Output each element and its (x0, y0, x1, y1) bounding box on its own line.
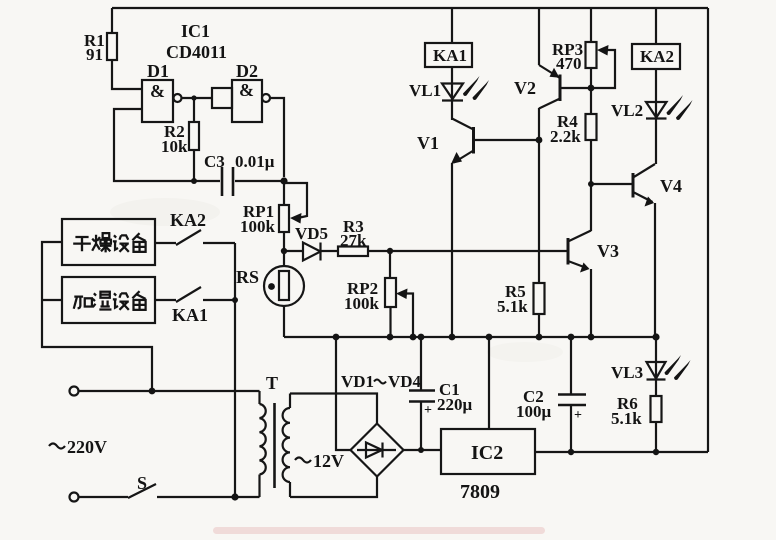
svg-text:220V: 220V (67, 437, 107, 457)
wire IC2 output to right rail (535, 451, 708, 453)
junction dot mains top (149, 388, 156, 395)
svg-text:5.1k: 5.1k (611, 409, 642, 428)
bus junction dot R5 (536, 334, 543, 341)
svg-text:S: S (137, 473, 147, 493)
relay coil KA2 (655, 8, 657, 44)
svg-text:KA2: KA2 (170, 210, 206, 230)
bus junction dot RP2 wiper (410, 334, 417, 341)
box humidifying equipment (62, 277, 155, 323)
capacitor C1 (420, 337, 422, 390)
wire D2 output to node A (270, 98, 284, 177)
text humidifying equipment (jia shi she bei) (74, 291, 146, 310)
relay coil KA1 (451, 8, 453, 43)
sensor RS (283, 254, 285, 266)
wire bus to bridge left vertex (336, 337, 351, 450)
svg-text:27k: 27k (340, 231, 367, 250)
arrowhead RP2 wiper (396, 289, 408, 300)
node junction dot V4 base (588, 181, 594, 187)
svg-text:VL1: VL1 (409, 81, 441, 100)
svg-text:2.2k: 2.2k (550, 127, 581, 146)
LED VL2 emission arrows (667, 95, 693, 120)
node junction dot V1 base (536, 137, 543, 144)
svg-text:0.01μ: 0.01μ (235, 152, 275, 171)
wire RP3 wiper loop (592, 50, 615, 88)
text drying equipment (gan zao she bei) (73, 233, 145, 252)
bus junction dot IC2 ground (486, 334, 493, 341)
svg-text:10k: 10k (161, 137, 188, 156)
arrowhead V1 emitter (451, 152, 462, 164)
svg-text:C3: C3 (204, 152, 225, 171)
svg-text:V2: V2 (514, 78, 536, 98)
wire R1 to D1 input 1 (112, 60, 142, 89)
resistor R2 (193, 98, 195, 122)
svg-text:220μ: 220μ (437, 395, 473, 414)
arrowhead V3 emitter (580, 263, 590, 273)
svg-text:D2: D2 (236, 61, 258, 81)
wire R3 to V3 base (368, 250, 568, 252)
svg-text:D1: D1 (147, 61, 169, 81)
svg-text:VD1: VD1 (341, 372, 374, 391)
bus junction dot RP2 (387, 334, 394, 341)
wire RP1 wiper loop (284, 183, 307, 218)
transistor Q1: V1 (452, 119, 474, 130)
wire equipment common (42, 242, 152, 391)
svg-text:V4: V4 (660, 176, 682, 196)
label ~220V (49, 444, 65, 449)
svg-text:&: & (150, 81, 165, 101)
arrowhead V4 emitter (645, 197, 655, 207)
bus junction dot C1 (418, 334, 425, 341)
transformer T secondary (289, 394, 291, 498)
junction dot S wire (231, 493, 238, 500)
svg-text:VL2: VL2 (611, 101, 643, 120)
transformer T primary (258, 391, 260, 497)
potentiometer RP2 (389, 251, 391, 278)
arrowhead V2 emitter (550, 68, 560, 78)
switch S blade (128, 484, 156, 498)
wire top supply rail (112, 7, 708, 9)
node junction dot RS inner electrode (268, 283, 275, 290)
svg-text:+: + (574, 408, 582, 423)
svg-text:12V: 12V (313, 451, 344, 471)
wire bridge top vertex to secondary top (290, 394, 377, 424)
svg-text:7809: 7809 (460, 481, 500, 503)
diode VD5 (284, 250, 303, 252)
resistor R1 (111, 8, 113, 33)
wire RP2 wiper to bus (404, 294, 413, 338)
switch KA2 contact (155, 230, 235, 245)
node junction dot R2 bottom (191, 178, 197, 184)
svg-text:5.1k: 5.1k (497, 297, 528, 316)
wire switch S to transformer (157, 496, 260, 498)
resistor R6 (655, 380, 657, 396)
bus junction dot V4 emitter / VL3 (652, 333, 659, 340)
junction dot KA1 wire (232, 297, 238, 303)
svg-text:VL3: VL3 (611, 363, 643, 382)
svg-text:KA1: KA1 (172, 305, 208, 325)
resistor R5 (534, 283, 545, 314)
node junction dot RP3 wiper / V2 base / R4 (588, 85, 595, 92)
op-amp U1: NAND gate D2 (232, 80, 262, 122)
svg-text:+: + (424, 403, 432, 418)
LED VL1 (451, 83, 453, 120)
resistor R3 (321, 250, 339, 252)
label ~12V (295, 458, 311, 463)
arrowhead RP1 wiper (290, 213, 302, 224)
capacitor C2 (570, 337, 572, 394)
svg-text:100k: 100k (344, 294, 380, 313)
svg-text:T: T (266, 373, 278, 393)
node junction dot R2 top (191, 95, 196, 100)
capacitor C3 (222, 167, 233, 196)
transistor Q4: V4 (591, 183, 633, 185)
terminal 220V top (70, 387, 79, 396)
svg-text:VD4: VD4 (388, 372, 422, 391)
wire right side rail (707, 8, 709, 452)
switch KA1 contact (155, 287, 235, 302)
wire 220V bottom to switch S (79, 496, 129, 498)
svg-text:100μ: 100μ (516, 402, 552, 421)
transistor Q3: V3 (567, 238, 570, 265)
potentiometer RP1 (283, 181, 285, 205)
svg-text:91: 91 (86, 45, 103, 64)
junction dot R6 bottom (653, 449, 659, 455)
op-amp U1: NAND gate D1 (142, 80, 173, 122)
bus junction dot V1 emitter (449, 334, 456, 341)
svg-text:IC2: IC2 (471, 442, 503, 464)
svg-text:VD5: VD5 (295, 224, 328, 243)
wire D1 output (182, 97, 213, 99)
bus junction dot bridge (333, 334, 340, 341)
svg-text:V3: V3 (597, 241, 619, 261)
LED VL2 (655, 102, 657, 119)
junction dot C2 bottom (568, 449, 574, 455)
svg-text:470: 470 (556, 54, 582, 73)
wire bridge bottom vertex to secondary bottom (290, 477, 377, 498)
svg-text:KA1: KA1 (433, 46, 467, 65)
svg-text:&: & (239, 80, 254, 100)
svg-text:CD4011: CD4011 (166, 42, 227, 62)
LED VL3 (655, 337, 657, 380)
resistor R4 (586, 114, 597, 140)
node A junction dot (C3/D2/RP1) (280, 177, 287, 184)
svg-text:KA2: KA2 (640, 47, 674, 66)
node junction dot RP1/VD5/RS (281, 248, 287, 254)
svg-text:RS: RS (236, 267, 259, 287)
svg-text:V1: V1 (417, 133, 439, 153)
wire feedback D1 input 2 to C3 (114, 109, 220, 181)
svg-text:IC1: IC1 (181, 21, 210, 41)
wire ground bus (284, 336, 656, 338)
svg-text:100k: 100k (240, 217, 276, 236)
junction dot C1 bottom (418, 447, 424, 453)
terminal 220V bottom (70, 493, 79, 502)
LED VL1 emission arrows (463, 76, 489, 100)
transistor Q2: V2 (539, 8, 559, 78)
transformer T core (273, 403, 276, 488)
op-amp U1: NAND gate D2 input block (212, 88, 232, 108)
potentiometer RP3 (590, 8, 592, 42)
wire KA common down to S wire (234, 243, 236, 497)
box drying equipment (62, 219, 155, 265)
wire C3 right plate to node A (235, 180, 284, 182)
wire 220V top to transformer (79, 390, 260, 392)
bus junction dot C2 (568, 334, 575, 341)
wire to humidifier box (42, 299, 62, 301)
arrowhead RP3 wiper (597, 45, 609, 56)
regulator IC2 (488, 337, 490, 429)
LED VL3 emission arrows (665, 355, 691, 380)
bus junction dot V3 emitter (588, 334, 595, 341)
bridge rectifier VD1-VD4 (351, 424, 404, 477)
node junction dot RP2 top (387, 248, 393, 254)
